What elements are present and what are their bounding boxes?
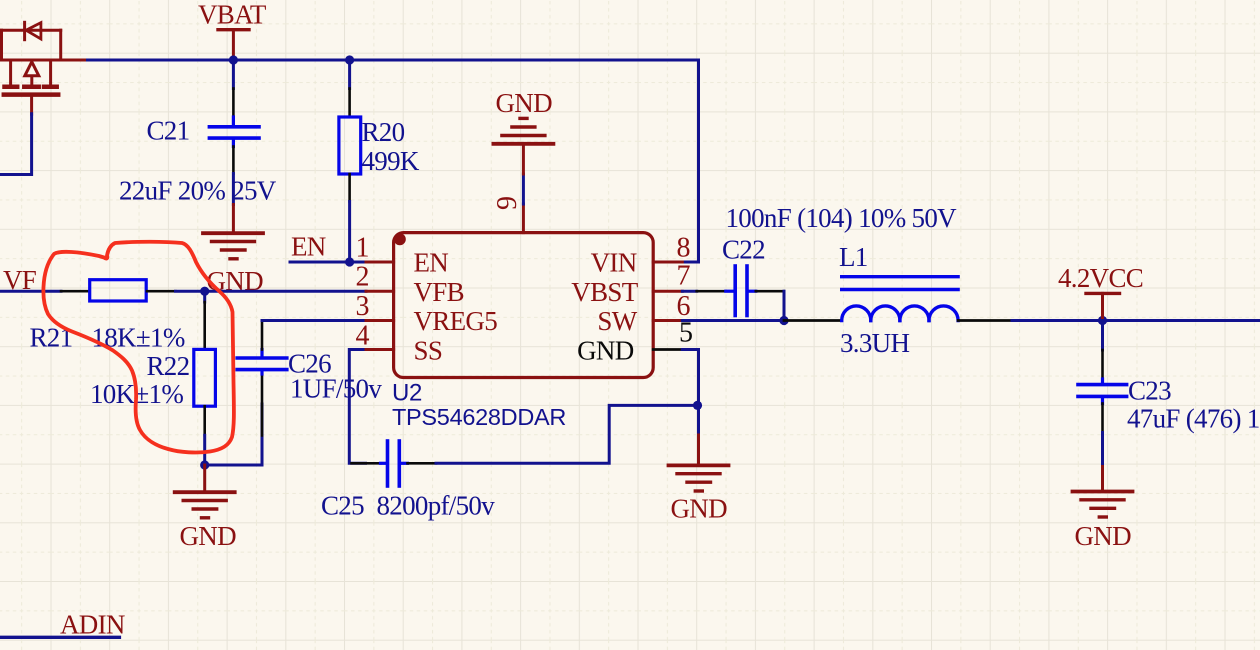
pin 3 VREG5 xyxy=(366,319,394,322)
svg-text:L1: L1 xyxy=(839,242,868,272)
node junction EN/R20/pin1 xyxy=(345,257,354,266)
pin 1 marker dot xyxy=(394,233,406,245)
node junction VF/R22 xyxy=(200,287,209,296)
power port 4.2VCC xyxy=(1058,263,1143,321)
svg-text:ADIN: ADIN xyxy=(60,610,125,640)
inductor L1 xyxy=(842,277,958,321)
svg-text:U2: U2 xyxy=(392,380,422,407)
svg-text:EN: EN xyxy=(414,248,449,278)
svg-text:47uF (476) 10%: 47uF (476) 10% xyxy=(1127,404,1260,434)
capacitor C21 xyxy=(209,60,259,174)
svg-text:VREG5: VREG5 xyxy=(414,306,498,336)
svg-text:22uF 20% 25V: 22uF 20% 25V xyxy=(119,176,277,206)
svg-text:VBAT: VBAT xyxy=(198,0,267,30)
node junction pin5/GND xyxy=(693,401,702,410)
svg-text:2: 2 xyxy=(356,262,370,293)
svg-text:1: 1 xyxy=(356,233,370,264)
transistor body arrow xyxy=(25,62,39,76)
capacitor C25 xyxy=(352,441,437,486)
ground GND (top, inverted) xyxy=(493,118,553,174)
wire (C25 to GND net of pin5) xyxy=(436,405,698,463)
svg-text:GND: GND xyxy=(496,88,553,118)
resistor R21 xyxy=(61,280,176,301)
wire (pin5 corner to ground) xyxy=(682,350,698,436)
svg-text:8: 8 xyxy=(677,233,691,264)
svg-text:7: 7 xyxy=(677,261,691,292)
transistor Q1 (P-MOSFET, partially off-canvas at left) xyxy=(2,30,61,114)
wire (SS pin4 down to C25) xyxy=(349,350,366,464)
wire (VF to R21) xyxy=(0,290,61,293)
wire (R21 to VFB pin2) xyxy=(176,290,367,293)
svg-text:1UF/50v: 1UF/50v xyxy=(290,374,382,404)
wire (rail down to pin 8 VIN) xyxy=(682,60,698,262)
wire (C23 to ground) xyxy=(1101,433,1104,467)
svg-text:499K: 499K xyxy=(362,146,420,176)
ground GND (under C21) xyxy=(203,205,263,259)
wire (Q1 drain red stub) xyxy=(0,59,88,62)
IC U2 (TPS54628DDAR) body xyxy=(394,233,654,378)
pin 6 SW xyxy=(653,319,682,322)
svg-text:VFB: VFB xyxy=(414,277,464,307)
wire (gate of Q1 down-left to edge) xyxy=(0,114,32,175)
pin 4 SS xyxy=(366,348,394,351)
svg-text:9: 9 xyxy=(492,196,523,210)
node junction rail/R20 xyxy=(345,55,354,64)
resistor R20 xyxy=(339,60,361,202)
node junction SW/C22/L1 xyxy=(779,316,788,325)
capacitor C22 xyxy=(682,266,784,316)
wire (SW pin6 to junction) xyxy=(682,319,784,322)
svg-text:R22: R22 xyxy=(147,351,190,381)
pin 5 GND (black) xyxy=(653,348,682,351)
annotation: red freehand loop around R21/R22 xyxy=(43,242,234,453)
wire (pin9 to top ground) xyxy=(522,174,525,204)
svg-text:GND: GND xyxy=(180,521,237,551)
node junction VBAT/C21 xyxy=(229,55,238,64)
wire (R22 to ground junction) xyxy=(203,435,206,465)
svg-text:GND: GND xyxy=(1075,521,1132,551)
wire (C26 to VREG5 pin3) xyxy=(262,319,366,322)
diode D (body diode of Q1) xyxy=(0,22,61,39)
svg-text:3: 3 xyxy=(356,291,370,322)
node junction 4.2VCC/C23 xyxy=(1098,316,1107,325)
wire (junction to C26 bottom) xyxy=(205,435,262,465)
svg-text:4.2VCC: 4.2VCC xyxy=(1058,263,1143,293)
power port VBAT xyxy=(198,0,267,60)
wire (R20 to EN pin1) xyxy=(348,202,351,263)
wire (C22 down to SW node) xyxy=(783,291,786,320)
svg-text:EN: EN xyxy=(291,232,326,262)
ground GND (under R22) xyxy=(175,465,235,518)
svg-text:4: 4 xyxy=(356,320,370,351)
ground GND (pin 5) xyxy=(669,435,729,491)
svg-text:TPS54628DDAR: TPS54628DDAR xyxy=(392,404,566,430)
svg-text:8200pf/50v: 8200pf/50v xyxy=(377,491,496,521)
svg-text:SS: SS xyxy=(414,335,443,365)
pin 9 (top, GND) xyxy=(522,204,525,233)
svg-text:C21: C21 xyxy=(147,116,190,146)
capacitor C23 xyxy=(1078,321,1127,433)
svg-text:SW: SW xyxy=(597,306,637,336)
svg-text:C23: C23 xyxy=(1128,376,1171,406)
svg-text:C22: C22 xyxy=(722,235,765,265)
pin 7 VBST xyxy=(653,290,682,293)
pin 8 VIN xyxy=(653,261,682,264)
node junction R22/C26/GND xyxy=(200,460,209,469)
capacitor C26 xyxy=(237,321,287,436)
wire (L1 right pin, black) xyxy=(958,319,1012,322)
svg-text:5: 5 xyxy=(679,318,693,349)
svg-text:R20: R20 xyxy=(362,117,405,147)
svg-text:GND: GND xyxy=(671,494,728,524)
pin 2 VFB xyxy=(366,290,394,293)
resistor R22 xyxy=(194,291,216,435)
svg-text:100nF (104) 10% 50V: 100nF (104) 10% 50V xyxy=(726,203,958,233)
svg-text:VIN: VIN xyxy=(591,248,637,278)
ground GND (under C23) xyxy=(1073,467,1133,518)
svg-text:C25: C25 xyxy=(321,491,364,521)
pin 1 EN xyxy=(366,261,394,264)
svg-text:VBST: VBST xyxy=(571,277,638,307)
wire (L1 to right edge 4.2VCC rail) xyxy=(1012,319,1260,322)
svg-text:GND: GND xyxy=(577,335,634,365)
wire (main VBAT rail) xyxy=(88,59,699,62)
wire (C21 to ground) xyxy=(232,174,235,205)
svg-text:3.3UH: 3.3UH xyxy=(840,328,909,358)
wire (junction to L1, black pin) xyxy=(784,319,842,322)
